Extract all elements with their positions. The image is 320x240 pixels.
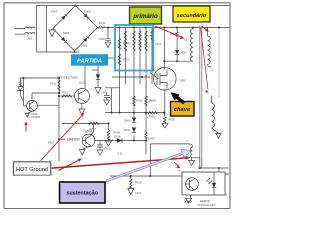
svg-text:L601: L601	[27, 37, 33, 41]
svg-text:C612: C612	[155, 42, 162, 46]
svg-text:D614: D614	[114, 135, 121, 139]
svg-text:R618: R618	[135, 181, 142, 185]
svg-text:C606: C606	[104, 147, 111, 151]
svg-text:2N3906: 2N3906	[31, 115, 41, 119]
svg-text:R611: R611	[62, 91, 69, 95]
svg-text:C614: C614	[135, 191, 142, 195]
svg-text:VOLTAGE DET: VOLTAGE DET	[197, 203, 216, 207]
svg-text:C604: C604	[101, 91, 108, 95]
svg-text:D609: D609	[124, 119, 131, 123]
svg-text:R602: R602	[149, 115, 156, 119]
svg-text:D609: D609	[180, 51, 187, 55]
svg-text:D605: D605	[84, 10, 91, 14]
svg-text:R608: R608	[168, 118, 175, 122]
svg-text:D608: D608	[63, 31, 70, 35]
svg-text:R605: R605	[148, 137, 155, 141]
svg-text:R601: R601	[123, 58, 130, 62]
svg-text:Q632: Q632	[79, 81, 86, 85]
svg-text:PROTECTION: PROTECTION	[57, 75, 77, 79]
svg-text:LIMITER: LIMITER	[67, 138, 80, 142]
svg-text:secundário: secundário	[177, 13, 207, 19]
svg-text:C602: C602	[99, 37, 106, 41]
svg-text:R617: R617	[48, 141, 55, 145]
svg-text:primário: primário	[132, 13, 158, 20]
svg-text:R609: R609	[114, 131, 121, 135]
svg-text:R615: R615	[170, 32, 177, 36]
svg-text:sustentação: sustentação	[66, 191, 98, 197]
svg-text:R614: R614	[99, 21, 106, 25]
svg-text:6.31: 6.31	[118, 152, 124, 156]
svg-text:PARTIDA: PARTIDA	[77, 58, 102, 64]
svg-text:D606: D606	[81, 44, 88, 48]
svg-text:HOT Ground: HOT Ground	[16, 167, 48, 173]
svg-text:D607: D607	[51, 10, 58, 14]
svg-text:D604: D604	[92, 68, 99, 72]
svg-text:D613: D613	[124, 128, 131, 132]
svg-text:R612: R612	[136, 99, 143, 103]
svg-text:Q601: Q601	[180, 79, 187, 83]
svg-text:chave: chave	[174, 107, 191, 113]
svg-text:Q603: Q603	[85, 129, 92, 133]
svg-text:L1: L1	[184, 38, 188, 42]
svg-text:R606: R606	[150, 99, 157, 103]
svg-text:ERROR: ERROR	[200, 199, 210, 203]
svg-text:R603: R603	[123, 41, 130, 45]
svg-text:R610: R610	[50, 82, 57, 86]
